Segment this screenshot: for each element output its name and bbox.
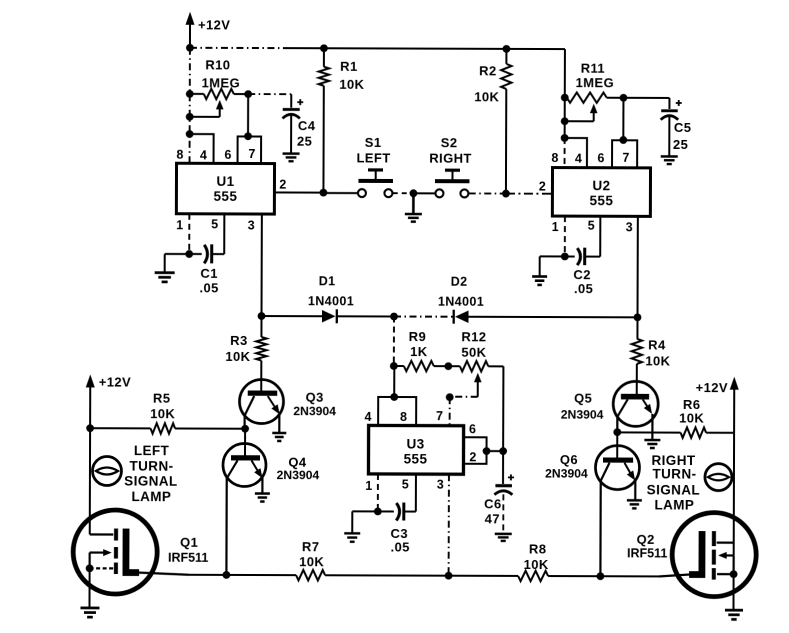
svg-text:R1: R1 xyxy=(340,59,357,74)
ground switch mid xyxy=(405,193,422,221)
svg-text:Q6: Q6 xyxy=(560,452,578,467)
wire R12 to pin2 tab xyxy=(502,366,504,451)
svg-text:10K: 10K xyxy=(225,349,250,364)
svg-text:LAMP: LAMP xyxy=(654,497,694,512)
svg-text:2N3904: 2N3904 xyxy=(293,404,336,418)
resistor R3 xyxy=(225,316,266,391)
svg-text:TURN-: TURN- xyxy=(652,466,696,481)
svg-text:RIGHT: RIGHT xyxy=(429,151,472,166)
wire U3 pins2-6 tab xyxy=(463,437,486,464)
wire to S1 xyxy=(323,192,357,194)
svg-text:6: 6 xyxy=(597,151,604,165)
transistor Q3 2N3904 xyxy=(239,379,336,432)
svg-text:10K: 10K xyxy=(679,410,704,425)
wire pin2 to C6 xyxy=(487,450,504,452)
wire U1 pin1 xyxy=(188,214,190,254)
node C6 top xyxy=(499,447,507,455)
capacitor C1 xyxy=(189,214,224,296)
svg-text:1MEG: 1MEG xyxy=(202,75,241,90)
svg-text:1N4001: 1N4001 xyxy=(308,294,354,308)
diode D2 1N4001 xyxy=(438,275,484,324)
svg-text:50K: 50K xyxy=(461,345,486,360)
node rail-left xyxy=(186,44,194,52)
wire C3 to ground xyxy=(352,511,378,533)
svg-text:R8: R8 xyxy=(529,541,546,556)
svg-text:IRF511: IRF511 xyxy=(627,546,667,560)
wire D-rail 4 xyxy=(468,316,637,319)
svg-text:4: 4 xyxy=(200,148,207,162)
svg-text:6: 6 xyxy=(224,148,231,162)
capacitor C3 xyxy=(378,474,416,555)
svg-text:25: 25 xyxy=(297,134,312,149)
svg-text:R2: R2 xyxy=(479,63,496,78)
svg-text:R3: R3 xyxy=(230,333,247,348)
svg-text:1: 1 xyxy=(552,220,559,234)
ground U3 pin1 xyxy=(344,533,360,541)
svg-text:10K: 10K xyxy=(339,77,364,92)
ground C4 xyxy=(283,154,300,162)
resistor R11 xyxy=(567,61,624,103)
resistor R6 xyxy=(617,397,734,438)
wire +12V to lamp R xyxy=(733,433,735,556)
wire C5 branch xyxy=(623,98,669,109)
node U1 pin7 top xyxy=(244,132,252,140)
ground Q4 emitter xyxy=(255,494,270,502)
wire U2 pin1 xyxy=(564,216,566,256)
capacitor C2 xyxy=(565,216,601,296)
resistor R5 xyxy=(90,390,245,434)
svg-text:R4: R4 xyxy=(648,337,666,352)
svg-text:8: 8 xyxy=(400,410,407,424)
U2 pin labels top xyxy=(551,151,629,166)
svg-text:R10: R10 xyxy=(205,57,230,72)
svg-text:3: 3 xyxy=(248,218,255,232)
wire U1 pin2 xyxy=(274,191,323,193)
node Q3/Q4 base xyxy=(241,425,249,433)
wire D-rail 2 xyxy=(337,315,394,317)
ground Q2 xyxy=(725,610,743,619)
node R11 right xyxy=(620,94,628,102)
svg-text:+12V: +12V xyxy=(99,374,131,389)
svg-text:C6: C6 xyxy=(484,496,501,511)
wire U2 pin3 xyxy=(636,216,638,317)
wire bottom rail 3 xyxy=(548,575,659,577)
R11 wiper xyxy=(565,104,598,122)
svg-text:2N3904: 2N3904 xyxy=(277,468,320,482)
svg-text:R12: R12 xyxy=(461,329,486,344)
svg-text:LEFT: LEFT xyxy=(134,443,170,458)
wire bottom rail 2 xyxy=(325,574,518,577)
node R11 left xyxy=(561,94,569,102)
ground Q1 xyxy=(80,608,99,617)
svg-text:3: 3 xyxy=(626,220,633,234)
node U3 pin3 rail xyxy=(445,572,453,580)
node R5/lamp left xyxy=(86,424,94,432)
wire S2 to R2 xyxy=(469,192,506,194)
U3 pin labels bottom xyxy=(365,477,444,493)
svg-text:Q3: Q3 xyxy=(306,390,324,405)
wire R10 to pin7 xyxy=(247,94,249,136)
svg-text:5: 5 xyxy=(211,217,218,231)
ground C5 xyxy=(661,156,678,164)
capacitor C4 xyxy=(282,99,315,153)
node R10 wiper tie xyxy=(186,113,194,121)
node U3 pins4-8 top xyxy=(390,393,398,401)
power +12V (right) xyxy=(695,377,738,433)
svg-text:+12V: +12V xyxy=(198,17,230,32)
svg-text:U3: U3 xyxy=(406,437,424,452)
lamp RIGHT TURN-SIGNAL xyxy=(647,453,732,513)
transistor Q1 IRF511 xyxy=(73,510,208,594)
wire U2 pin8 bus xyxy=(564,49,566,167)
svg-text:.05: .05 xyxy=(199,280,218,295)
wire C1 to ground xyxy=(165,254,190,272)
wire C4 branch xyxy=(248,94,291,108)
svg-text:LEFT: LEFT xyxy=(356,150,390,165)
node D-rail right xyxy=(634,313,642,321)
svg-text:47: 47 xyxy=(485,511,500,526)
node S2/R2 xyxy=(502,190,510,198)
wire U3 pin7 xyxy=(449,397,451,425)
node U2 pin4 tie xyxy=(561,134,569,142)
svg-text:5: 5 xyxy=(402,478,409,492)
node C1 junction xyxy=(185,250,193,258)
wire U3 pin1 xyxy=(377,474,379,511)
svg-text:U1: U1 xyxy=(216,174,234,189)
node rail-R1 xyxy=(320,44,328,52)
wire U1 pins6-7 tab xyxy=(238,136,262,163)
ground U1 pin1 xyxy=(155,273,175,282)
node C3 junction xyxy=(374,508,382,516)
svg-text:10K: 10K xyxy=(524,557,549,572)
wire U2 pins6-7 tab xyxy=(612,140,637,168)
svg-text:SIGNAL: SIGNAL xyxy=(124,474,177,489)
ground Q5 emitter xyxy=(644,440,660,448)
node C2 junction xyxy=(561,253,569,261)
node Q5/Q6 base xyxy=(613,428,621,436)
node R9 left xyxy=(390,362,398,370)
svg-text:Q2: Q2 xyxy=(637,532,655,547)
svg-text:U2: U2 xyxy=(592,178,610,193)
svg-text:R7: R7 xyxy=(302,539,319,554)
transistor Q6 2N3904 xyxy=(545,432,640,576)
svg-text:R5: R5 xyxy=(153,391,170,406)
power +12V (top) xyxy=(185,12,230,48)
ground U2 pin1 xyxy=(532,276,547,284)
ground Q6 emitter xyxy=(627,500,642,508)
node rail-R2 xyxy=(503,45,511,53)
lamp LEFT TURN-SIGNAL xyxy=(92,443,177,504)
node D-rail left xyxy=(258,312,266,320)
wire U2 pin4 xyxy=(565,138,588,168)
R10 wiper xyxy=(190,100,224,117)
op-amp U3 555 timer xyxy=(368,425,463,474)
U1 pin labels top xyxy=(176,147,255,163)
resistor R10 xyxy=(190,57,249,99)
resistor R8 xyxy=(518,541,549,581)
svg-text:LAMP: LAMP xyxy=(131,489,171,504)
op-amp U2 555 timer xyxy=(552,168,650,217)
wire to U2 pin2 xyxy=(506,193,552,195)
resistor R7 xyxy=(296,539,325,580)
svg-text:TURN-: TURN- xyxy=(129,459,173,474)
svg-text:S1: S1 xyxy=(365,135,382,150)
node Q1 source xyxy=(86,564,94,572)
svg-text:555: 555 xyxy=(214,189,238,204)
node Q2 source xyxy=(730,570,738,578)
svg-text:3: 3 xyxy=(437,478,444,492)
svg-text:2: 2 xyxy=(279,178,286,192)
node R11 wiper tie xyxy=(561,117,569,125)
wire C2 to ground xyxy=(540,256,565,276)
switch S1 xyxy=(356,135,393,197)
node U3 pin7 top xyxy=(446,393,454,401)
svg-text:6: 6 xyxy=(469,422,476,436)
svg-text:+12V: +12V xyxy=(696,380,728,395)
diode D1 1N4001 xyxy=(308,274,354,323)
resistor R1 xyxy=(318,48,364,193)
svg-text:R9: R9 xyxy=(409,329,426,344)
U2 pin labels bottom xyxy=(552,219,633,235)
U1 pin2 label xyxy=(279,178,286,192)
wire U1 pin3 xyxy=(261,214,263,316)
svg-text:555: 555 xyxy=(590,193,614,208)
resistor R4 xyxy=(632,317,671,396)
svg-text:1: 1 xyxy=(365,479,372,493)
wire D-rail 3 xyxy=(394,315,454,317)
svg-text:.05: .05 xyxy=(391,539,410,554)
svg-text:7: 7 xyxy=(248,147,255,161)
svg-text:R11: R11 xyxy=(581,61,605,76)
svg-text:5: 5 xyxy=(588,219,595,233)
wire D-rail to R9 xyxy=(393,316,395,365)
svg-text:2N3904: 2N3904 xyxy=(561,408,604,422)
svg-text:2: 2 xyxy=(539,180,546,194)
svg-text:10K: 10K xyxy=(150,406,175,421)
wire Q1 to ground xyxy=(88,568,90,607)
svg-text:Q5: Q5 xyxy=(574,391,592,406)
node Q6 collector xyxy=(596,572,604,580)
ground C6 xyxy=(495,534,512,541)
wire mid to S2 xyxy=(413,192,435,194)
wire U3 pin3 xyxy=(448,474,450,575)
node R9/R12 xyxy=(444,362,452,370)
transistor Q4 2N3904 xyxy=(223,429,320,576)
capacitor C6 xyxy=(484,451,514,530)
svg-text:C5: C5 xyxy=(674,120,691,135)
wire +12V rail xyxy=(190,48,565,49)
svg-text:Q1: Q1 xyxy=(180,535,198,550)
svg-text:1MEG: 1MEG xyxy=(576,75,615,90)
wire U3 pins4-8 tab xyxy=(378,397,416,426)
node D-rail mid xyxy=(390,313,398,321)
wire S1 to mid xyxy=(393,192,409,194)
capacitor C5 xyxy=(661,100,692,156)
wire R11 to pin7 xyxy=(622,98,624,140)
R12 wiper xyxy=(450,373,482,397)
svg-text:C4: C4 xyxy=(298,118,316,133)
node U1pin2/R1 xyxy=(320,189,328,197)
svg-text:1: 1 xyxy=(176,218,183,232)
wire U1 pin8 bus xyxy=(189,48,191,163)
svg-text:D2: D2 xyxy=(451,275,468,289)
svg-text:SIGNAL: SIGNAL xyxy=(647,482,700,497)
wire lamp left xyxy=(89,428,91,534)
resistor R9 xyxy=(394,329,449,371)
U2 pin2 label xyxy=(539,180,546,194)
wire U1 pin4 xyxy=(190,134,214,163)
svg-text:10K: 10K xyxy=(645,353,670,368)
transistor Q5 2N3904 xyxy=(561,381,659,439)
U3 pin labels right xyxy=(469,422,477,464)
svg-text:2N3904: 2N3904 xyxy=(545,467,588,481)
svg-text:4: 4 xyxy=(575,152,582,166)
wire bottom rail 1 xyxy=(189,574,296,576)
svg-text:C1: C1 xyxy=(200,266,217,281)
svg-text:1N4001: 1N4001 xyxy=(438,295,484,309)
svg-text:10K: 10K xyxy=(299,554,324,569)
wire Q2 to ground xyxy=(732,574,734,609)
svg-text:S2: S2 xyxy=(441,135,458,150)
resistor R2 xyxy=(474,49,512,194)
svg-text:D1: D1 xyxy=(319,274,336,288)
node U2 pin7 top xyxy=(619,136,627,144)
svg-text:2: 2 xyxy=(469,450,476,464)
svg-text:7: 7 xyxy=(622,151,629,165)
svg-text:25: 25 xyxy=(673,137,688,152)
node R10 right xyxy=(244,90,252,98)
power +12V (left) xyxy=(86,374,132,428)
switch S2 xyxy=(429,135,472,197)
svg-text:555: 555 xyxy=(404,452,428,467)
node switch mid xyxy=(410,189,418,197)
svg-text:.05: .05 xyxy=(574,281,593,296)
svg-text:8: 8 xyxy=(551,151,558,165)
U1 pin labels bottom xyxy=(176,217,255,232)
op-amp U1 555 timer xyxy=(176,163,274,214)
wire R9 to pins4-8 xyxy=(393,366,395,397)
node U3 pin2 tab xyxy=(483,447,491,455)
U3 pin labels top xyxy=(364,409,443,424)
svg-text:10K: 10K xyxy=(474,89,499,104)
svg-text:8: 8 xyxy=(176,148,183,162)
node U1 pin4 tie xyxy=(186,130,194,138)
ground Q3 emitter xyxy=(272,433,286,441)
svg-text:4: 4 xyxy=(364,410,371,424)
svg-text:IRF511: IRF511 xyxy=(168,551,208,565)
resistor R12 xyxy=(448,329,503,371)
svg-text:C2: C2 xyxy=(573,267,590,282)
node R10 left xyxy=(186,90,194,98)
node Q4 collector xyxy=(222,571,230,579)
transistor Q2 IRF511 xyxy=(627,512,756,596)
svg-text:7: 7 xyxy=(436,409,443,423)
svg-text:1K: 1K xyxy=(410,344,428,359)
wire D-rail 1 xyxy=(262,315,322,317)
